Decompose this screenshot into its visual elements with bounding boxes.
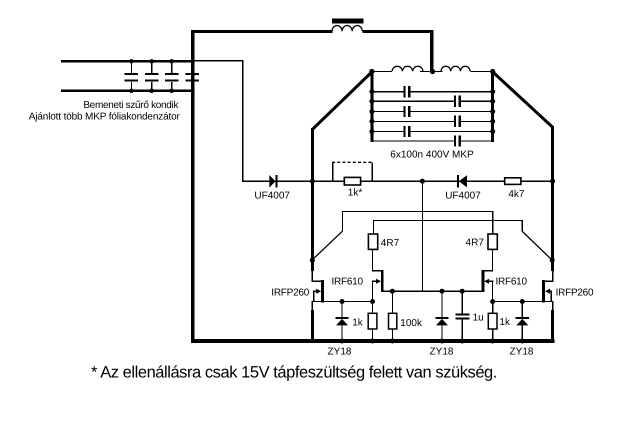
svg-text:UF4007: UF4007 bbox=[254, 191, 290, 202]
svg-text:ZY18: ZY18 bbox=[510, 347, 534, 358]
svg-text:Bemeneti szűrő kondik: Bemeneti szűrő kondik bbox=[83, 100, 179, 111]
svg-text:Ajánlott több MKP fóliakondenz: Ajánlott több MKP fóliakondenzátor bbox=[29, 112, 181, 123]
svg-text:100k: 100k bbox=[400, 318, 423, 329]
svg-text:4k7: 4k7 bbox=[508, 189, 525, 200]
svg-text:IRF610: IRF610 bbox=[332, 277, 364, 288]
svg-text:6x100n 400V MKP: 6x100n 400V MKP bbox=[390, 150, 474, 161]
svg-text:1k*: 1k* bbox=[348, 188, 363, 199]
svg-text:ZY18: ZY18 bbox=[328, 347, 352, 358]
svg-text:1k: 1k bbox=[352, 318, 364, 329]
svg-text:4R7: 4R7 bbox=[466, 238, 485, 249]
svg-text:ZY18: ZY18 bbox=[430, 347, 454, 358]
svg-text:* Az ellenállásra csak 15V táp: * Az ellenállásra csak 15V tápfeszültség… bbox=[91, 364, 497, 382]
svg-text:4R7: 4R7 bbox=[381, 238, 400, 249]
svg-text:IRF610: IRF610 bbox=[496, 277, 528, 288]
svg-text:1k: 1k bbox=[499, 317, 511, 328]
svg-text:1u: 1u bbox=[473, 313, 484, 324]
svg-text:UF4007: UF4007 bbox=[445, 191, 481, 202]
svg-text:IRFP260: IRFP260 bbox=[556, 288, 594, 299]
svg-text:IRFP260: IRFP260 bbox=[271, 287, 309, 298]
